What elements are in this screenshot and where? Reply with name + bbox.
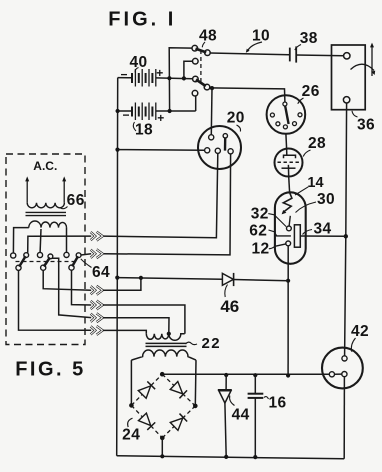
wire arrow6 to transformer 22 left end [103,330,147,333]
connector arrow 3 [91,286,103,295]
flash tube 14 envelope [275,192,306,263]
transformer 66 secondary center tap lead [39,229,42,252]
label 46 leader [225,285,228,298]
svg-text:66: 66 [67,192,85,209]
svg-text:−: − [122,108,129,122]
wire battery 40 right lead [156,77,193,80]
connector arrow 1 [91,232,103,241]
svg-text:20: 20 [227,110,245,127]
svg-text:48: 48 [199,28,217,45]
bridge diode lower-right [170,414,187,431]
connector arrow 4 [91,301,103,310]
capacitor 38 [289,48,291,62]
wire capacitor 38 to box 36 [296,54,343,57]
box 36 upper terminal [344,53,350,59]
flash tube 14 plate 34 [294,225,300,247]
tube 28 top electrode lead [286,148,288,155]
wire DC output rail [162,373,329,375]
flash tube 14 lower electrode circle 12 [286,241,291,246]
wire box 36 to junction 34 to lamp 42 top [345,103,347,356]
wire arrow5 to transformer 22 center tap [103,318,169,334]
box 36 lower terminal [343,97,349,103]
lamp 42 [322,348,363,389]
capacitor 16 [248,393,264,395]
svg-text:36: 36 [357,117,375,134]
wire battery 18 right lead [156,110,196,112]
switch 48 lower throw contact [204,84,210,90]
svg-text:16: 16 [268,395,286,412]
transformer 22 secondary winding [131,350,196,360]
junction bracket-battery40 [167,76,171,80]
selector 20 wiper bar [224,138,227,150]
svg-text:46: 46 [220,297,239,316]
svg-text:64: 64 [92,264,110,281]
junction 34 wire [344,234,348,238]
svg-text:28: 28 [308,135,326,152]
label 18 leader [133,122,136,131]
diode 46 anode wire [117,278,222,280]
battery 40 [132,69,156,87]
wire top line to capacitor 38 [210,53,289,55]
diode 44 bottom lead [225,403,226,457]
switch 48 gang dashed link [200,50,202,83]
transformer 66 secondary left lead [13,228,28,253]
switch 48 lower arm [196,80,206,87]
diode 46 [222,273,233,285]
wire bridge bottom to rail [161,438,163,456]
label 42 leader [351,338,355,352]
wire arrow4 to transformer 22 right end [103,305,185,334]
transformer 66 core [26,211,67,213]
tap switch 3 contact [64,252,69,257]
bridge diode lower-left [138,413,155,430]
svg-text:26: 26 [302,83,320,100]
wire bus to selector 20 left contact [118,149,205,152]
label 30 leader [296,202,317,213]
label 40 leader [135,68,138,73]
AC input arrow left [26,181,28,203]
transformer 66 secondary winding [29,221,67,228]
wire arrow3 to diode46 line branch [103,278,141,290]
flash tube 14 lower electrode lead [275,244,286,246]
switch 48 upper arm [196,49,207,53]
wire tube 28 to flash tube 14 [288,176,291,192]
FIG.5 dashed enclosure [6,154,85,345]
flash tube 14 upper electrode circle 32 [287,226,292,231]
junction diode 44 bottom [224,455,228,459]
diode 44 [218,389,232,391]
wire bottom rail [117,456,345,459]
wire switch3 throw to arrow 2 [81,254,91,255]
svg-text:14: 14 [307,175,323,191]
tube 28 top electrode [284,155,296,158]
wire plate 34 to right bus [300,235,346,237]
transformer 66 secondary right lead [66,228,68,253]
label 32 leader [268,214,286,227]
flash tube 14 upper electrode lead [289,216,290,226]
label 14 leader [295,187,308,195]
box 36 direction arrow [371,47,373,76]
transformer 22 primary winding [146,334,184,341]
bridge rectifier 24 frame [131,374,195,438]
junction cap16 top [253,373,257,377]
junction bridge bottom rail [160,454,164,458]
label 62 leader dash [269,230,275,232]
selector switch 20 [198,126,241,169]
lamp 42 left contact [329,372,334,377]
tap switch 1 contact [11,253,16,258]
box 36 rotation arrow [351,64,375,70]
tap switch 3 pivot [69,265,74,270]
svg-text:34: 34 [313,221,331,238]
wire selector 26 to tube 28 [285,134,288,149]
selector switch 26 [267,95,306,134]
wire secondary left to bridge left corner [130,360,132,405]
lamp 42 bottom lead [343,377,345,459]
wire battery 18 left lead [118,110,132,112]
wire switch2 pivot to arrow 3 [43,270,91,290]
junction bracket-battery18 [168,109,172,113]
label 34 leader [303,230,313,235]
label 10 arrow leader [248,42,262,51]
selector 26 bottom-right contact [293,122,297,126]
diode 46 cathode wire [234,280,289,281]
tap switch 2 throw contact [48,254,53,259]
selector 20 center contact [215,148,220,153]
wire battery 40 left lead [118,77,132,79]
junction cap 16 bottom [253,455,257,459]
junction diode 46 output [286,279,290,283]
label 22 squiggle [186,342,198,345]
switch 48 upper throw contact [205,50,211,56]
label 36 leader [352,111,358,117]
svg-text:FIG. 5: FIG. 5 [15,359,86,381]
selector 26 pointer [285,106,288,124]
connector arrow 5 [91,313,103,322]
wire switch3 pivot to arrow 4 [72,270,92,305]
diode 44 top lead [225,375,227,390]
selector 26 left lower contact [276,122,280,126]
tube 28 grid dashed [278,161,300,163]
tap switch 2 arm [44,258,50,267]
junction bus-diode46 line [115,276,119,280]
label 20 leader [237,125,241,132]
tap switch 3 throw contact [76,253,81,258]
flash tube 14 trigger electrode 62 [275,233,291,236]
tap switch 3 arm [72,256,78,266]
tube 28 bottom electrode [282,167,296,169]
selector 20 right contact [228,149,233,154]
switch 48 lower pivot contact [193,76,199,82]
transformer 22 core [146,342,187,344]
junction tube lead bottom [286,373,290,377]
wire switch1 pivot to arrow 6 [19,270,92,330]
wire switch1 throw to arrow 1 [28,236,91,253]
junction arrow3 branch [139,276,143,280]
svg-text:32: 32 [251,206,269,223]
label 28 leader [303,150,310,157]
svg-text:−: − [120,68,127,82]
svg-text:38: 38 [300,30,318,47]
switch 48 middle contact bracket wire [184,61,193,78]
tap switch 1 arm [19,256,25,266]
selector 20 top-right contact [223,134,227,138]
wire main left bus [117,78,118,456]
tube 28 [275,149,303,177]
selector 20 top-left contact [209,135,214,140]
selector 26 right contact [298,113,302,117]
AC input arrow right [63,181,65,203]
tap switch 1 throw contact [24,253,29,258]
box 36 [332,45,366,110]
tap switch gang dashed link [16,261,77,263]
connector arrow 6 [91,326,103,335]
label 38 leader [295,45,301,51]
lamp 42 contact link wire [335,373,342,375]
svg-text:44: 44 [232,407,250,424]
wire switch2 throw jog down to arrow 5 [52,258,91,317]
lamp 42 bottom contact [342,372,347,377]
svg-text:62: 62 [249,223,267,240]
selector 26 left upper contact [270,113,274,117]
tap switch 1 pivot [16,265,21,270]
junction selector 20 drop [210,86,214,90]
wire secondary right to bridge right corner [194,360,197,406]
tap switch 2 contact [37,252,42,257]
svg-text:+: + [157,111,164,125]
switch 48 bottom contact [192,90,198,96]
svg-text:40: 40 [129,54,147,71]
bridge corner junctions [160,372,165,377]
label 16 leader squiggle [264,397,269,399]
switch 48 upper pivot contact [192,45,198,51]
lamp 42 top contact [342,356,347,361]
label 44 leader [230,396,235,406]
bridge diode upper-left [138,381,155,398]
wire flash tube bottom lead down [287,246,289,376]
bridge diode upper-right [170,382,187,399]
svg-text:30: 30 [317,191,335,208]
svg-text:22: 22 [201,335,221,352]
wire drop to selector 20 top contact [210,88,213,135]
junction middle bracket-battery40 [182,76,186,80]
wire switch 48 lower throw to selector 26 [210,88,285,102]
svg-text:18: 18 [135,122,153,139]
junction diode44 top [224,373,228,377]
selector 26 bottom contact [283,125,287,129]
label 66 leader squiggle [61,207,68,209]
switch 48 upper pivot bracket wire [169,48,192,111]
junction bus-selector20 wire [115,148,119,152]
capacitor 16 top lead [254,375,256,394]
svg-text:42: 42 [351,323,369,340]
transformer 22 center tap junction [167,332,171,336]
capacitor 16 bottom lead [254,398,256,457]
svg-text:FIG. I: FIG. I [108,8,176,30]
selector 20 left contact [205,148,210,153]
transformer 66 primary winding [27,203,64,208]
tap switch 2 pivot [41,265,46,270]
label 12 leader [269,246,275,248]
label 24 leader dashes [128,418,133,427]
selector 26 top contact [283,102,287,106]
wire selector 20 center contact to arrow line 1 [103,154,218,238]
svg-text:A.C.: A.C. [33,159,57,173]
switch 48 bottom contact lead [195,96,197,111]
battery 18 [132,103,156,121]
junction bus-battery18 [116,109,120,113]
svg-text:24: 24 [122,426,140,443]
connector arrow 2 [91,249,103,258]
label 48 leader [202,42,205,47]
label 26 leader [298,98,304,104]
label 64 leader [81,259,92,268]
svg-text:12: 12 [251,241,269,258]
tube 28 bottom lead [287,165,289,177]
switch 48 middle contact [193,58,199,64]
wire selector 20 right contact to arrow line 2 [103,154,231,255]
flash tube 14 spark zigzag 30 [283,192,292,211]
